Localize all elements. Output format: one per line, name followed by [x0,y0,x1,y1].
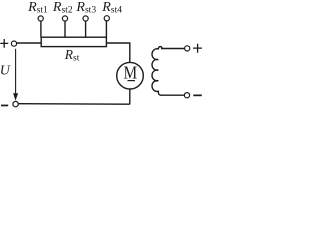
wire box to motor corner [106,43,129,63]
label Rst [64,47,80,64]
minus sign supply [1,105,8,107]
terminal supply plus [11,41,16,46]
terminal tap 2 [62,16,67,21]
wire supply to box [17,42,42,44]
motor M circle [117,62,144,89]
resistor Rst box [41,37,106,46]
wire bottom return [18,103,130,106]
wire tap 3 [85,21,87,37]
wire tap 2 [64,21,66,37]
wire coil bottom [161,94,185,96]
label Rst1 [27,0,48,16]
minus sign field [193,95,202,97]
label U [0,64,11,79]
terminal field minus [184,93,189,98]
wire tap 1 [40,21,42,37]
svg-text:U: U [0,64,11,79]
wire coil top [161,48,185,50]
wire tap 4 [105,21,107,38]
wire motor bottom [129,89,131,104]
plus sign field [193,44,202,53]
terminal tap 3 [83,16,88,21]
label Rst2 [52,0,73,16]
terminal field plus [185,46,190,51]
motor dc mark [128,80,136,81]
label Rst4 [101,0,122,16]
plus sign supply [0,39,8,48]
label M [124,63,138,83]
inductor field winding [152,47,162,96]
svg-text:M: M [124,63,138,83]
terminal tap 1 [38,16,43,21]
terminal supply minus [13,101,18,106]
terminal tap 4 [104,16,109,21]
voltage arrow U [15,49,17,95]
label Rst3 [75,0,96,16]
